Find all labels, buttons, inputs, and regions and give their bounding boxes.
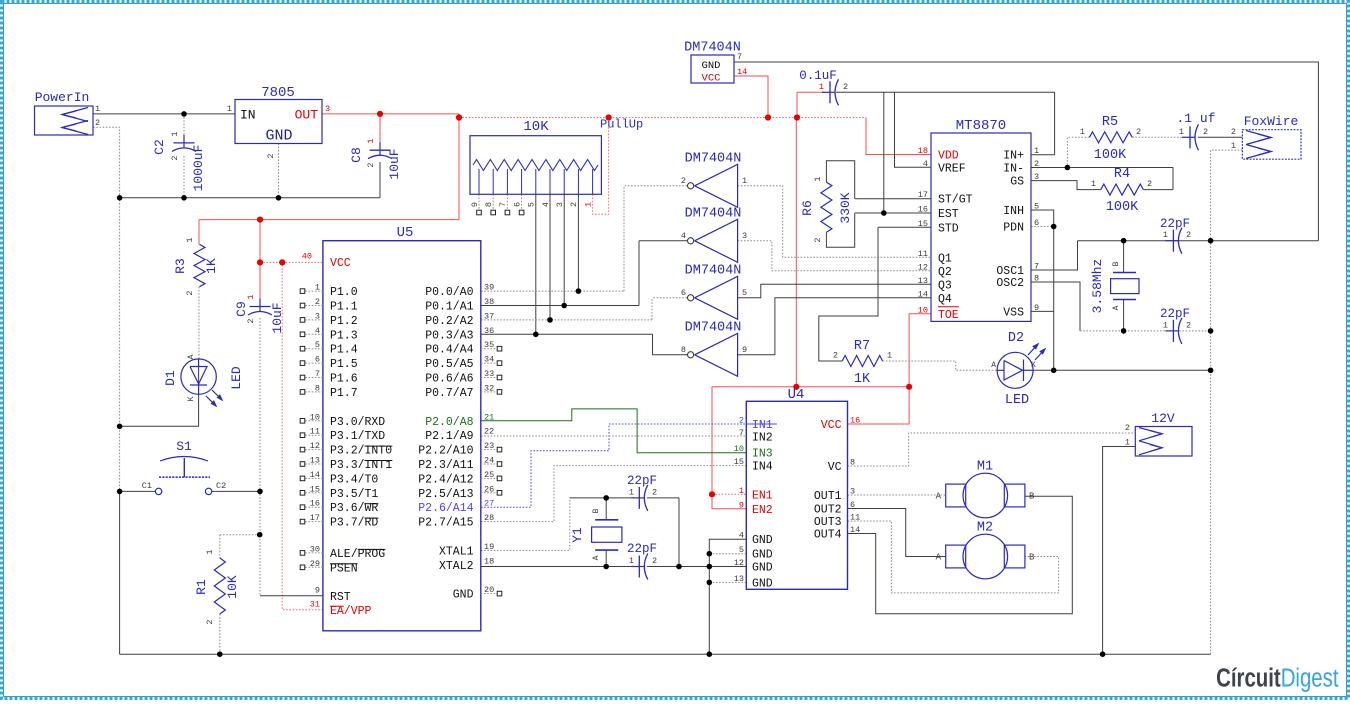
svg-text:S1: S1 [176, 439, 192, 454]
svg-text:7: 7 [498, 202, 508, 207]
svg-text:4: 4 [739, 531, 744, 541]
svg-text:P2.7/A15: P2.7/A15 [418, 517, 473, 530]
svg-text:MT8870: MT8870 [956, 118, 1006, 134]
svg-text:P1.2: P1.2 [330, 315, 358, 328]
svg-text:14: 14 [918, 289, 928, 299]
svg-text:2: 2 [569, 202, 579, 207]
svg-text:1: 1 [1080, 127, 1085, 137]
svg-text:VC: VC [828, 461, 842, 474]
svg-text:4: 4 [681, 231, 686, 241]
svg-text:R1: R1 [194, 579, 209, 595]
svg-text:GND: GND [752, 549, 773, 562]
svg-text:11: 11 [918, 249, 928, 259]
svg-text:R6: R6 [800, 200, 815, 216]
svg-text:1: 1 [583, 202, 593, 207]
svg-text:P3.1/TXD: P3.1/TXD [330, 430, 385, 443]
svg-text:1: 1 [170, 131, 180, 136]
svg-text:P2.6/A14: P2.6/A14 [418, 502, 473, 515]
svg-text:R3: R3 [173, 258, 188, 274]
svg-text:7: 7 [737, 52, 742, 62]
svg-text:5: 5 [742, 288, 747, 298]
svg-text:22pF: 22pF [1160, 217, 1190, 231]
svg-text:GS: GS [1010, 176, 1024, 189]
svg-text:FoxWire: FoxWire [1244, 114, 1299, 129]
svg-text:Y1: Y1 [570, 527, 585, 543]
svg-text:15: 15 [734, 457, 744, 467]
svg-text:2: 2 [813, 237, 823, 242]
svg-text:GND: GND [752, 577, 773, 590]
svg-text:10: 10 [918, 305, 928, 315]
svg-text:.1 uf: .1 uf [1176, 111, 1215, 126]
svg-text:K: K [187, 396, 196, 401]
svg-text:17: 17 [918, 190, 928, 200]
svg-text:D2: D2 [1008, 331, 1024, 346]
svg-text:LED: LED [1005, 393, 1029, 408]
svg-text:1: 1 [1034, 146, 1039, 156]
svg-text:9: 9 [739, 500, 744, 510]
svg-text:2: 2 [1125, 423, 1130, 433]
svg-text:10K: 10K [523, 119, 549, 135]
svg-text:39: 39 [484, 283, 494, 293]
svg-text:1: 1 [629, 488, 634, 498]
svg-text:VREF: VREF [938, 162, 966, 175]
svg-text:IN4: IN4 [752, 461, 773, 474]
svg-text:P1.3: P1.3 [330, 329, 358, 342]
svg-text:18: 18 [918, 146, 928, 156]
svg-text:P1.5: P1.5 [330, 358, 358, 371]
svg-text:P2.2/A10: P2.2/A10 [418, 445, 473, 458]
svg-text:1: 1 [1231, 141, 1236, 151]
svg-text:16: 16 [918, 205, 928, 215]
svg-text:12: 12 [918, 262, 928, 272]
svg-text:GND: GND [453, 589, 474, 602]
svg-text:GND: GND [702, 60, 721, 72]
svg-text:K: K [1031, 361, 1036, 370]
svg-text:2: 2 [681, 176, 686, 186]
svg-text:P0.4/A4: P0.4/A4 [425, 344, 473, 357]
svg-text:2: 2 [366, 162, 376, 167]
svg-text:P1.7: P1.7 [330, 387, 358, 400]
svg-text:4: 4 [541, 202, 551, 207]
svg-text:1: 1 [205, 549, 215, 554]
svg-text:8: 8 [1034, 274, 1039, 284]
svg-text:19: 19 [484, 542, 494, 552]
svg-text:3: 3 [850, 487, 855, 497]
svg-text:3.58Mhz: 3.58Mhz [1090, 259, 1105, 314]
svg-text:2: 2 [185, 290, 195, 295]
svg-text:C1: C1 [142, 481, 152, 491]
svg-text:2: 2 [1186, 230, 1191, 240]
svg-text:P1.1: P1.1 [330, 301, 358, 314]
svg-text:1: 1 [185, 237, 195, 242]
svg-text:0.1uF: 0.1uF [799, 69, 837, 83]
svg-text:10uF: 10uF [270, 302, 285, 333]
svg-text:7805: 7805 [261, 85, 295, 101]
svg-text:DM7404N: DM7404N [685, 151, 742, 166]
svg-text:3: 3 [555, 202, 565, 207]
svg-text:C2: C2 [216, 481, 226, 491]
svg-text:Q1: Q1 [938, 252, 952, 265]
svg-text:IN-: IN- [1003, 163, 1024, 176]
svg-text:6: 6 [850, 500, 855, 510]
svg-text:Q3: Q3 [938, 279, 952, 292]
svg-text:2: 2 [266, 153, 276, 158]
svg-text:IN3: IN3 [752, 448, 773, 461]
svg-text:4: 4 [923, 159, 928, 169]
svg-text:1: 1 [887, 351, 892, 361]
svg-text:6: 6 [512, 202, 522, 207]
svg-text:M1: M1 [977, 460, 993, 475]
svg-text:R7: R7 [854, 339, 870, 354]
svg-text:OUT: OUT [295, 108, 319, 123]
svg-text:XTAL1: XTAL1 [439, 545, 474, 558]
svg-text:OUT4: OUT4 [814, 529, 842, 542]
svg-text:P2.1/A9: P2.1/A9 [425, 430, 473, 443]
svg-text:B: B [592, 508, 601, 513]
svg-text:PDN: PDN [1003, 222, 1024, 235]
svg-text:D1: D1 [163, 370, 178, 386]
svg-text:7: 7 [1034, 262, 1039, 272]
svg-text:22pF: 22pF [627, 542, 657, 556]
svg-text:B: B [1112, 261, 1121, 266]
svg-text:40: 40 [302, 252, 312, 262]
svg-text:C2: C2 [152, 139, 167, 155]
svg-text:P0.6/A6: P0.6/A6 [425, 373, 473, 386]
svg-text:27: 27 [484, 499, 494, 509]
svg-text:14: 14 [850, 525, 860, 535]
svg-text:2: 2 [95, 118, 100, 128]
svg-text:GND: GND [752, 534, 773, 547]
svg-text:U5: U5 [397, 225, 414, 241]
svg-text:B: B [1029, 492, 1035, 502]
svg-text:2: 2 [1231, 127, 1236, 137]
svg-text:2: 2 [652, 556, 657, 566]
svg-text:1: 1 [1163, 230, 1168, 240]
svg-text:P2.0/A8: P2.0/A8 [425, 416, 473, 429]
svg-text:OUT3: OUT3 [814, 516, 842, 529]
svg-text:6: 6 [681, 288, 686, 298]
svg-text:IN+: IN+ [1003, 150, 1024, 163]
svg-text:U4: U4 [788, 387, 805, 403]
svg-text:2: 2 [833, 351, 838, 361]
svg-text:1: 1 [95, 104, 100, 114]
svg-text:2: 2 [1203, 127, 1208, 137]
svg-text:P0.7/A7: P0.7/A7 [425, 387, 473, 400]
svg-text:A: A [187, 354, 196, 359]
svg-text:22pF: 22pF [1160, 307, 1190, 321]
svg-text:VCC: VCC [330, 257, 351, 270]
svg-text:3: 3 [742, 231, 747, 241]
svg-text:A: A [936, 492, 942, 502]
svg-text:1: 1 [742, 176, 747, 186]
svg-text:LED: LED [229, 366, 244, 390]
svg-text:8: 8 [850, 458, 855, 468]
svg-text:2: 2 [1136, 127, 1141, 137]
svg-text:1: 1 [739, 486, 744, 496]
svg-text:2: 2 [843, 82, 848, 92]
svg-text:EN2: EN2 [752, 504, 773, 517]
svg-text:VCC: VCC [821, 419, 842, 432]
svg-text:R5: R5 [1102, 115, 1118, 130]
svg-text:B: B [1029, 553, 1035, 563]
svg-text:M2: M2 [977, 521, 993, 536]
svg-text:Q2: Q2 [938, 266, 952, 279]
svg-text:37: 37 [484, 311, 494, 321]
svg-text:1K: 1K [854, 372, 871, 387]
svg-text:XTAL2: XTAL2 [439, 560, 474, 573]
svg-text:P2.4/A12: P2.4/A12 [418, 473, 473, 486]
svg-text:22pF: 22pF [627, 474, 657, 488]
svg-text:2: 2 [170, 155, 180, 160]
svg-text:14: 14 [737, 67, 747, 77]
svg-text:10: 10 [734, 444, 744, 454]
svg-text:31: 31 [310, 600, 320, 610]
svg-text:1: 1 [1091, 179, 1096, 189]
svg-text:2: 2 [652, 488, 657, 498]
svg-text:2: 2 [246, 318, 256, 323]
svg-text:36: 36 [484, 326, 494, 336]
svg-text:13: 13 [918, 276, 928, 286]
svg-text:1: 1 [246, 294, 256, 299]
svg-text:7: 7 [739, 428, 744, 438]
svg-text:9: 9 [1034, 303, 1039, 313]
svg-text:1: 1 [1125, 438, 1130, 448]
svg-text:P2.3/A11: P2.3/A11 [418, 459, 473, 472]
svg-text:12V: 12V [1151, 411, 1175, 426]
svg-text:Q4: Q4 [938, 293, 952, 306]
svg-text:P0.0/A0: P0.0/A0 [425, 286, 473, 299]
svg-text:P0.1/A1: P0.1/A1 [425, 301, 473, 314]
svg-text:8: 8 [681, 345, 686, 355]
svg-text:9: 9 [315, 586, 320, 596]
svg-text:A: A [991, 361, 996, 370]
svg-text:330K: 330K [838, 192, 853, 223]
svg-text:1: 1 [819, 82, 824, 92]
svg-text:5: 5 [739, 545, 744, 555]
svg-text:1000uF: 1000uF [191, 145, 206, 192]
svg-text:RST: RST [330, 591, 351, 604]
svg-text:10K: 10K [225, 575, 240, 599]
svg-text:EN1: EN1 [752, 489, 773, 502]
svg-text:1: 1 [227, 104, 232, 114]
svg-text:A: A [936, 553, 942, 563]
svg-text:PowerIn: PowerIn [35, 90, 90, 105]
svg-text:DM7404N: DM7404N [685, 320, 742, 335]
svg-text:5: 5 [527, 202, 537, 207]
svg-text:1: 1 [1163, 321, 1168, 331]
svg-text:22: 22 [484, 427, 494, 437]
svg-text:VCC: VCC [702, 73, 721, 85]
svg-text:P3.4/T0: P3.4/T0 [330, 473, 378, 486]
svg-text:13: 13 [734, 574, 744, 584]
svg-text:P0.3/A3: P0.3/A3 [425, 329, 473, 342]
svg-text:100K: 100K [1094, 148, 1127, 163]
svg-text:PullUp: PullUp [600, 118, 643, 132]
svg-text:TOE: TOE [938, 309, 959, 322]
svg-text:A: A [1112, 305, 1121, 310]
svg-text:28: 28 [484, 513, 494, 523]
svg-text:3: 3 [325, 104, 330, 114]
svg-text:3: 3 [1034, 172, 1039, 182]
svg-text:P2.5/A13: P2.5/A13 [418, 488, 473, 501]
svg-text:P1.4: P1.4 [330, 344, 358, 357]
svg-text:DM7404N: DM7404N [684, 41, 741, 56]
svg-text:ST/GT: ST/GT [938, 194, 973, 207]
svg-text:100K: 100K [1106, 200, 1139, 215]
svg-text:2: 2 [205, 619, 215, 624]
svg-text:12: 12 [734, 558, 744, 568]
svg-text:C9: C9 [234, 301, 249, 317]
svg-text:VDD: VDD [938, 150, 959, 163]
svg-text:P0.2/A2: P0.2/A2 [425, 315, 473, 328]
svg-text:10uF: 10uF [387, 148, 402, 179]
svg-text:IN: IN [240, 108, 256, 123]
svg-text:P0.5/A5: P0.5/A5 [425, 358, 473, 371]
svg-text:EA/VPP: EA/VPP [330, 605, 372, 618]
svg-text:16: 16 [850, 416, 860, 426]
svg-text:INH: INH [1003, 205, 1024, 218]
svg-text:P3.5/T1: P3.5/T1 [330, 488, 378, 501]
svg-text:21: 21 [484, 412, 494, 422]
svg-text:6: 6 [1034, 218, 1039, 228]
svg-text:9: 9 [742, 345, 747, 355]
svg-text:IN1: IN1 [752, 419, 773, 432]
svg-text:C8: C8 [349, 147, 364, 163]
svg-text:VSS: VSS [1003, 306, 1024, 319]
svg-text:2: 2 [1186, 321, 1191, 331]
svg-text:11: 11 [850, 513, 860, 523]
svg-text:P1.6: P1.6 [330, 373, 358, 386]
svg-text:15: 15 [918, 219, 928, 229]
svg-text:DM7404N: DM7404N [685, 263, 742, 278]
svg-text:OUT1: OUT1 [814, 490, 842, 503]
svg-text:1: 1 [813, 176, 823, 181]
svg-text:1: 1 [366, 138, 376, 143]
svg-text:P3.0/RXD: P3.0/RXD [330, 416, 385, 429]
svg-text:1K: 1K [204, 258, 219, 274]
svg-text:2: 2 [1034, 159, 1039, 169]
svg-text:5: 5 [1034, 202, 1039, 212]
svg-text:8: 8 [484, 202, 494, 207]
svg-text:9: 9 [470, 202, 480, 207]
svg-text:A: A [592, 555, 601, 560]
svg-text:GND: GND [752, 562, 773, 575]
svg-text:GND: GND [265, 128, 292, 145]
svg-text:P1.0: P1.0 [330, 286, 358, 299]
svg-text:EST: EST [938, 208, 959, 221]
svg-text:STD: STD [938, 222, 959, 235]
svg-text:CírcuitDigest: CírcuitDigest [1216, 663, 1339, 692]
svg-text:1: 1 [629, 556, 634, 566]
svg-text:38: 38 [484, 297, 494, 307]
svg-text:OSC2: OSC2 [996, 277, 1024, 290]
svg-text:DM7404N: DM7404N [685, 206, 742, 221]
svg-text:18: 18 [484, 556, 494, 566]
svg-text:R4: R4 [1114, 167, 1130, 182]
svg-text:2: 2 [739, 416, 744, 426]
svg-text:1: 1 [1179, 127, 1184, 137]
svg-text:IN2: IN2 [752, 432, 773, 445]
svg-text:OUT2: OUT2 [814, 504, 842, 517]
svg-text:2: 2 [1147, 179, 1152, 189]
